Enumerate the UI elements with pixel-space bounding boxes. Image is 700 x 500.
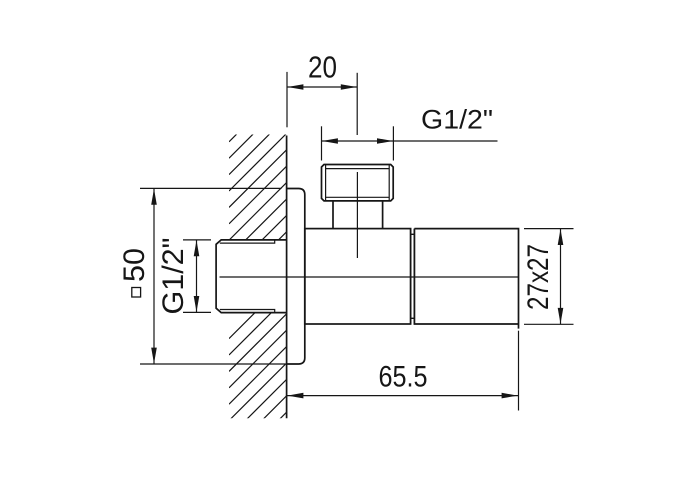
dimension 20: extension lines — [287, 72, 357, 135]
wall face line — [286, 136, 288, 419]
svg-text:G1/2": G1/2" — [157, 238, 190, 315]
dimension 27x27: dimension line — [560, 229, 562, 325]
top port neck — [333, 201, 383, 229]
wall hatch upper section — [229, 84, 287, 338]
dimension square 50: dimension line — [153, 188, 155, 364]
left wall-side threaded connector G1/2 (outer, chamfered) — [216, 240, 287, 313]
dimension 65.5: right extension line — [518, 331, 520, 411]
dimension G1/2 top: arrowheads — [322, 138, 338, 144]
left connector thread root lines with runout — [220, 240, 275, 312]
dimension 65.5: arrowheads — [287, 393, 303, 399]
wall hatch lower section — [229, 281, 287, 486]
dimension G1/2 top: dimension/leader line — [322, 140, 498, 142]
svg-text:65.5: 65.5 — [379, 361, 428, 394]
svg-text:G1/2": G1/2" — [421, 105, 493, 135]
left wall-side threaded connector G1/2 white fill — [216, 240, 287, 313]
top threaded port G1/2 (outer, chamfered) — [322, 165, 394, 201]
main horizontal centerline — [220, 276, 519, 278]
dimension square 50: rotated text — [132, 288, 141, 298]
dimension G1/2 left: arrowheads — [194, 240, 200, 256]
body/outlet joint seam — [411, 229, 415, 324]
top threaded port thread root lines — [326, 165, 390, 201]
dimension G1/2 left: extension lines — [183, 240, 211, 313]
dimension G1/2 left: dimension line — [196, 240, 198, 313]
svg-text:50: 50 — [118, 248, 151, 282]
valve body part 1 — [305, 229, 411, 324]
svg-text:20: 20 — [308, 50, 337, 85]
dimension 27x27: extension lines — [524, 229, 574, 325]
dimension square 50: extension lines — [140, 188, 285, 364]
dimension 27x27: arrowheads — [558, 229, 564, 245]
top port vertical centerline — [356, 172, 358, 258]
svg-text:27x27: 27x27 — [522, 244, 555, 310]
dimension 65.5: dimension line — [287, 395, 519, 397]
dimension 20: arrowheads — [287, 84, 303, 90]
dimension G1/2 top: extension lines — [322, 126, 394, 160]
valve flange (rounded escutcheon on wall) — [287, 189, 305, 365]
valve body part 2 (outlet block) — [414, 229, 518, 329]
dimension square 50: arrowheads — [151, 189, 157, 205]
dimension 20: dimension line — [287, 86, 357, 88]
